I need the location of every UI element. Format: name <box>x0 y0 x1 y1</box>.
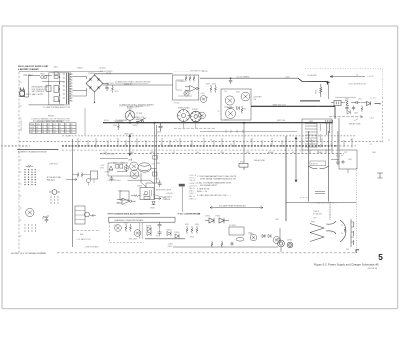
svg-text:4.4: 4.4 <box>59 132 61 134</box>
svg-text:+ SEE NOTE ABC: + SEE NOTE ABC <box>84 245 99 248</box>
wire input loop <box>25 76 53 98</box>
svg-text:T821: T821 <box>156 163 160 165</box>
wire lower run <box>173 246 278 248</box>
svg-text:C823: C823 <box>155 178 159 180</box>
svg-text:SUPPLY: SUPPLY <box>311 163 319 165</box>
svg-text:R605: R605 <box>206 83 210 85</box>
svg-text:TRACE: TRACE <box>313 210 320 213</box>
capacitor C861 <box>341 160 344 164</box>
transformer T601 pin comb <box>70 73 72 100</box>
svg-text:17: 17 <box>270 144 272 146</box>
resistor R811 <box>43 215 48 219</box>
svg-text:60: 60 <box>70 127 72 129</box>
component delay line termination <box>239 164 248 171</box>
resistor R622 <box>189 75 191 81</box>
svg-text:CHG: CHG <box>100 168 105 170</box>
wire crt feed top <box>329 202 331 220</box>
transistor Q621 <box>184 91 189 96</box>
svg-text:BAL ADJ: BAL ADJ <box>47 179 55 182</box>
op-amp U831 <box>117 198 136 205</box>
svg-text:CR843: CR843 <box>166 229 171 231</box>
svg-text:7: 7 <box>290 134 291 136</box>
CRT neck pins <box>344 222 354 242</box>
svg-text:50: 50 <box>70 124 72 126</box>
resistor R641 <box>241 106 243 114</box>
wire feed drop <box>327 82 329 85</box>
switch wafer contact grid 1 <box>24 169 35 185</box>
wire crossing vertical w/ arrows <box>129 135 131 156</box>
box relay K801 <box>120 191 129 200</box>
svg-text:Q841: Q841 <box>114 225 118 227</box>
svg-text:R611: R611 <box>115 91 119 93</box>
svg-text:Q851: Q851 <box>248 232 252 234</box>
svg-text:R821: R821 <box>113 162 117 164</box>
node note text <box>31 117 70 122</box>
node left border pin ticks <box>19 82 22 236</box>
svg-text:19: 19 <box>330 144 332 146</box>
svg-text:T2: T2 <box>379 104 381 106</box>
svg-text:x 1,2,3: x 1,2,3 <box>368 76 374 78</box>
svg-text:2.2k: 2.2k <box>205 97 208 99</box>
transistor Q853 <box>273 237 280 244</box>
transistor Q605 <box>226 109 236 119</box>
svg-text:S/N UP: S/N UP <box>127 108 134 110</box>
wire osc freq run <box>128 180 155 183</box>
svg-text:R853: R853 <box>195 224 199 226</box>
svg-text:4: 4 <box>71 145 72 147</box>
svg-text:D1: D1 <box>341 225 343 227</box>
transistor Q851 <box>250 234 257 241</box>
component coupling lower <box>153 172 158 176</box>
svg-text:T601: T601 <box>54 66 58 68</box>
wire hv box joins <box>331 160 348 174</box>
transistor Q823 <box>130 170 139 179</box>
lamp DS851 neon <box>278 240 285 247</box>
node right notes column <box>189 175 197 200</box>
wire to crt <box>286 202 356 204</box>
svg-text:11: 11 <box>190 144 192 146</box>
svg-text:0.8: 0.8 <box>42 132 44 134</box>
connector circle aux <box>85 212 90 217</box>
diode CR842 <box>147 231 151 236</box>
svg-text:CHARGE RATE ADJUST R841: CHARGE RATE ADJUST R841 <box>114 213 144 216</box>
svg-text:Q853: Q853 <box>262 236 266 238</box>
svg-text:R805: R805 <box>345 98 349 100</box>
svg-text:15: 15 <box>250 139 252 141</box>
svg-text:P601 LOW-VOLT SUPPLY UNIT: P601 LOW-VOLT SUPPLY UNIT <box>18 66 49 68</box>
transistor Q821 <box>130 162 139 171</box>
diode CR844 output <box>175 234 179 239</box>
bracket voltage peak inverse <box>210 206 263 208</box>
capacitor C823 <box>158 180 162 187</box>
wire pin row 4 <box>62 149 340 151</box>
transformer T601 secondary pins <box>63 74 73 101</box>
wire toroid down <box>140 173 142 182</box>
node band crossing ticks <box>78 138 352 148</box>
svg-text:P/O A5 BD: P/O A5 BD <box>308 74 318 77</box>
connector P601 plug <box>19 88 24 97</box>
svg-text:0.8: 0.8 <box>53 132 55 134</box>
svg-text:LOW VOLT: LOW VOLT <box>49 164 59 166</box>
svg-text:Figure 5-2. Power Supply and: Figure 5-2. Power Supply and Charger Sch… <box>314 263 379 267</box>
svg-text:T841: T841 <box>129 238 133 240</box>
wire section divider left <box>17 149 58 151</box>
svg-text:45: 45 <box>70 132 72 134</box>
svg-text:C601: C601 <box>157 132 161 134</box>
node osc box internals <box>144 190 151 196</box>
node title text <box>18 66 49 71</box>
wire oscillator to box <box>141 183 147 188</box>
node row5 net labels <box>103 151 377 154</box>
box regulator outline <box>173 75 199 100</box>
svg-text:21: 21 <box>370 144 372 146</box>
wire bridge negative drop <box>73 91 95 103</box>
svg-text:10k: 10k <box>224 91 227 93</box>
wire mid rail 131 <box>200 130 297 132</box>
box small comp <box>179 184 185 187</box>
svg-text:1.5: 1.5 <box>42 127 44 129</box>
svg-text:1.1: 1.1 <box>65 132 67 134</box>
wire oscillator mesh <box>108 163 160 188</box>
svg-text:+12V DISTRIBUTION: +12V DISTRIBUTION <box>348 84 367 86</box>
wire pin row 3 heavy <box>62 145 336 147</box>
component crt top pin <box>377 173 383 178</box>
wire pin row 2 <box>19 140 382 142</box>
svg-text:1.2: 1.2 <box>53 130 55 132</box>
transformer T841 windings <box>139 223 142 239</box>
svg-text:2.1: 2.1 <box>36 132 38 134</box>
capacitor C841 <box>158 222 162 236</box>
svg-text:CR601: CR601 <box>88 73 95 75</box>
transformer T821 toroid <box>138 163 151 172</box>
transistor Q825 <box>124 166 129 171</box>
resistor R821 <box>116 165 119 169</box>
wire from comp down <box>181 186 183 212</box>
svg-text:C801: C801 <box>316 106 320 108</box>
component line selector boxes <box>46 72 59 102</box>
diode CR852 <box>219 218 224 224</box>
svg-text:TRIG: TRIG <box>220 152 225 154</box>
svg-text:NOTE: NOTE <box>48 115 54 117</box>
svg-text:4.1: 4.1 <box>47 132 49 134</box>
svg-text:C803: C803 <box>354 112 358 114</box>
wire top-right box border <box>305 69 383 97</box>
transformer T801 windings <box>327 123 330 135</box>
wire top-left block border <box>19 71 103 73</box>
svg-text:& BATTERY CHARGER: & BATTERY CHARGER <box>18 68 39 71</box>
svg-text:MODEL 15 & UP SERIAL NUMBER: MODEL 15 & UP SERIAL NUMBER <box>11 252 46 255</box>
connector J801 <box>49 190 60 195</box>
svg-text:VERT: VERT <box>150 152 154 154</box>
svg-text:8.0: 8.0 <box>47 130 49 132</box>
node bus junction dots <box>129 122 245 124</box>
svg-text:SW601 REAR: SW601 REAR <box>178 107 190 110</box>
wire junction column <box>42 73 64 104</box>
svg-text:D2: D2 <box>341 233 343 235</box>
svg-text:ELEMENT OF A BAT/CHG MODE: ELEMENT OF A BAT/CHG MODE <box>18 151 47 154</box>
lamp DS852 neon <box>287 242 293 248</box>
box T801 inverter <box>302 119 332 150</box>
bridge rectifier CR601 <box>86 75 103 92</box>
CRT envelope V859 <box>308 131 328 202</box>
box voltage supply label box <box>310 161 326 166</box>
svg-text:1.4: 1.4 <box>53 124 55 126</box>
svg-text:4.6: 4.6 <box>36 127 38 129</box>
svg-text:T4: T4 <box>356 74 358 76</box>
wire charger drop <box>328 85 330 99</box>
svg-text:K801: K801 <box>118 190 122 192</box>
capacitor C631 <box>229 78 233 84</box>
resistor R632 <box>215 85 217 93</box>
svg-text:R852: R852 <box>190 236 194 238</box>
svg-text:8: 8 <box>110 139 111 141</box>
wire t801 internals <box>305 126 317 144</box>
svg-text:F601: F601 <box>41 73 45 75</box>
wire +12.6V rail <box>104 73 173 75</box>
svg-text:CR851: CR851 <box>205 215 210 217</box>
svg-text:2.2: 2.2 <box>65 124 67 126</box>
svg-text:B050000: B050000 <box>136 106 143 108</box>
svg-text:10: 10 <box>175 139 177 141</box>
transformer T601 core <box>67 73 69 104</box>
svg-text:55: 55 <box>70 130 72 132</box>
svg-text:R641: R641 <box>236 91 240 93</box>
svg-text:B050 — 10: B050 — 10 <box>197 191 208 193</box>
node connected-at-all text <box>119 103 154 108</box>
svg-text:DS851: DS851 <box>276 238 281 240</box>
battery BT601 <box>116 120 122 123</box>
transistor Q843 <box>134 230 141 237</box>
resistor R611 <box>112 85 114 93</box>
svg-text:R601: R601 <box>113 125 117 127</box>
svg-text:SEE + NOTE: SEE + NOTE <box>32 94 44 96</box>
diode CR841 <box>147 227 151 232</box>
capacitor C601 <box>159 123 163 131</box>
wire q853 drop <box>280 228 281 252</box>
svg-text:C841: C841 <box>156 235 160 237</box>
svg-text:2.1: 2.1 <box>65 130 67 132</box>
wire toroid output right <box>151 168 157 170</box>
svg-text:8.2: 8.2 <box>47 124 49 126</box>
resistor R631 <box>210 85 212 93</box>
svg-text:LINE 2.4: LINE 2.4 <box>189 198 196 200</box>
svg-text:DELAY LINE: DELAY LINE <box>254 159 265 162</box>
wire board outline dashes <box>110 222 145 242</box>
svg-text:x 1,2,3: x 1,2,3 <box>370 98 375 100</box>
svg-text:V859: V859 <box>311 221 315 223</box>
resistor R844 <box>130 224 132 232</box>
wire delay line arrow <box>329 116 363 118</box>
wire vertical x286 heavy <box>285 136 287 221</box>
node table entries <box>30 124 72 134</box>
wire vertical x244 <box>243 123 245 163</box>
switch wafer contact grid 2 <box>50 196 58 203</box>
diode VR831 zener <box>152 202 156 205</box>
wire arrow interconnect <box>330 76 365 78</box>
node corner tick <box>356 250 359 253</box>
wire vertical pair <box>154 123 156 200</box>
svg-text:P/O A2: P/O A2 <box>174 101 179 104</box>
wire wafer stubs <box>184 122 196 129</box>
wire main +12V bus <box>103 122 332 124</box>
svg-text:GRAT: GRAT <box>318 151 323 154</box>
svg-text:2: 2 <box>80 139 81 141</box>
svg-text:CRT: CRT <box>344 152 347 154</box>
svg-text:T801: T801 <box>309 121 313 123</box>
svg-text:C611: C611 <box>110 83 114 85</box>
resistor R824 <box>126 164 128 172</box>
svg-text:WITH SERIAL NUMBER B050000 & U: WITH SERIAL NUMBER B050000 & UP. <box>200 178 236 181</box>
CRT gun triangles <box>310 224 324 242</box>
svg-text:CR841: CR841 <box>146 225 151 227</box>
svg-text:CAL 0.4: CAL 0.4 <box>189 187 195 190</box>
transistor Q607 <box>199 112 206 119</box>
svg-text:CR821: CR821 <box>105 171 110 173</box>
svg-text:VERT SIG OUT: VERT SIG OUT <box>273 104 287 106</box>
wire crt dotted columns <box>329 204 331 219</box>
svg-text:ROTATION: ROTATION <box>313 213 323 216</box>
svg-text:BAT 1.3: BAT 1.3 <box>189 195 195 198</box>
svg-text:+12.5V UNREG: +12.5V UNREG <box>236 76 250 78</box>
svg-text:— — — — — — — SEE PARTS LIST: — — — — — — — SEE PARTS LIST <box>174 69 205 72</box>
resistor R857 vertical <box>221 241 223 247</box>
box inverter board strip <box>109 217 175 222</box>
wire right dotted border <box>356 168 358 253</box>
svg-text:DRIVE: DRIVE <box>137 185 143 187</box>
transistor Q603 <box>225 96 234 105</box>
svg-text:-105V: -105V <box>168 246 174 248</box>
wire regulator internals <box>176 80 192 96</box>
resistor R813 <box>90 215 96 217</box>
svg-text:INVERTER DRIVE: INVERTER DRIVE <box>156 190 172 192</box>
wire thick feed <box>298 78 328 81</box>
svg-text:IF DELAY LINE: IF DELAY LINE <box>47 176 61 179</box>
wire pin row 5 <box>100 153 344 155</box>
capacitor C824 <box>110 176 114 181</box>
wire to line voltage selector <box>29 104 65 106</box>
svg-text:Q843: Q843 <box>133 238 137 240</box>
component pair coupling box <box>153 156 158 160</box>
svg-text:HV MULT: HV MULT <box>229 225 236 227</box>
diode CR605 <box>237 106 240 110</box>
node charger cluster <box>331 100 381 105</box>
svg-text:TP 601: TP 601 <box>136 113 143 115</box>
wire charger heavy feed <box>300 100 320 102</box>
svg-text:CR844: CR844 <box>174 232 179 234</box>
svg-text:x 1,4: x 1,4 <box>370 118 374 120</box>
box sub block <box>140 188 154 200</box>
resistor R807 <box>361 106 363 112</box>
svg-text:OSC FREQ ADJ: OSC FREQ ADJ <box>108 179 121 182</box>
wire oscillator feed <box>100 159 132 161</box>
wire right vertical <box>338 118 340 150</box>
svg-text:18: 18 <box>350 139 352 141</box>
svg-text:NO SIGNAL INPUT.: NO SIGNAL INPUT. <box>200 184 218 187</box>
node voltage table <box>30 123 76 134</box>
box right lower block <box>339 150 357 169</box>
svg-text:C855: C855 <box>275 219 279 221</box>
svg-text:A2 BD: A2 BD <box>203 70 209 73</box>
svg-text:SW601: SW601 <box>133 125 139 127</box>
resistor network right <box>186 226 198 234</box>
svg-text:2.2: 2.2 <box>65 127 67 129</box>
svg-text:R755: R755 <box>240 161 244 163</box>
node crt grid marks <box>315 192 325 194</box>
svg-text:R646: R646 <box>242 108 246 110</box>
transformer T601 box <box>49 73 69 105</box>
resistor R872 <box>81 172 83 178</box>
svg-text:R801: R801 <box>316 90 318 94</box>
svg-text:DC CONVERTER BD: DC CONVERTER BD <box>180 214 201 216</box>
svg-text:3: 3 <box>290 148 291 150</box>
svg-text:R823: R823 <box>121 162 125 164</box>
svg-text:1.2: 1.2 <box>42 130 44 132</box>
node IF DELAY text <box>47 176 61 182</box>
svg-text:CHARGER / INVERTER BOARD: CHARGER / INVERTER BOARD <box>114 219 144 222</box>
svg-text:VR831: VR831 <box>150 207 155 209</box>
resistor R645 <box>227 107 234 109</box>
resistor R601 <box>118 124 120 130</box>
svg-text:R843: R843 <box>124 222 128 224</box>
svg-text:CHARGE: CHARGE <box>163 198 171 201</box>
svg-text:BT601: BT601 <box>104 120 109 122</box>
diode CR802 <box>347 110 350 114</box>
node rail131 ticks <box>226 130 243 133</box>
wire bridge - output <box>103 84 108 86</box>
svg-text:P/O A1 BOARD: P/O A1 BOARD <box>100 70 113 73</box>
node REGULATED text block <box>32 86 49 96</box>
svg-text:+12 VDC: +12 VDC <box>99 68 107 70</box>
svg-text:1. THIS DIAGRAM APPLIES TO ALL: 1. THIS DIAGRAM APPLIES TO ALL UNITS <box>197 175 237 178</box>
svg-text:CAL: CAL <box>196 151 199 154</box>
svg-text:+12V: +12V <box>285 76 290 78</box>
box series regulator <box>221 89 251 120</box>
resistor R843 <box>125 224 127 232</box>
svg-text:U831: U831 <box>116 202 120 204</box>
wire tp to bus <box>129 120 131 122</box>
svg-text:9.0: 9.0 <box>59 130 61 132</box>
fuse F601 <box>41 76 47 79</box>
svg-text:+ L/R PARTS LIST: + L/R PARTS LIST <box>76 238 92 241</box>
resistor R856 vertical <box>211 241 213 247</box>
meter DS601 circle <box>125 109 135 121</box>
transistor Q801 <box>26 208 34 216</box>
diode CR843 output <box>167 231 171 236</box>
transistor Q631 <box>200 96 207 103</box>
diode CR857 <box>268 234 271 238</box>
transistor Q841 <box>115 225 122 232</box>
svg-text:2. ALL VOLTAGES MEASURED WITH: 2. ALL VOLTAGES MEASURED WITH <box>197 181 232 184</box>
svg-text:Q631: Q631 <box>201 93 205 95</box>
node crt left dash stub <box>300 197 309 199</box>
resistor R623 <box>193 75 195 81</box>
svg-text:13: 13 <box>230 144 232 146</box>
svg-text:0.5: 0.5 <box>42 124 44 126</box>
svg-text:20: 20 <box>388 139 390 141</box>
svg-text:Q605: Q605 <box>224 119 228 121</box>
diode CR856 <box>262 234 265 238</box>
resistor R871 <box>77 172 79 178</box>
svg-text:LINE / CHG: LINE / CHG <box>124 134 134 136</box>
svg-text:9.1: 9.1 <box>59 127 61 129</box>
transistor Q871 <box>86 178 90 182</box>
resistor R621 <box>185 75 187 81</box>
inductor L851 <box>236 238 244 242</box>
wire inverter output <box>145 238 185 240</box>
diode CR851 <box>209 218 214 224</box>
svg-text:12V ADJ: 12V ADJ <box>178 80 185 83</box>
wire bus turn down <box>334 106 336 119</box>
